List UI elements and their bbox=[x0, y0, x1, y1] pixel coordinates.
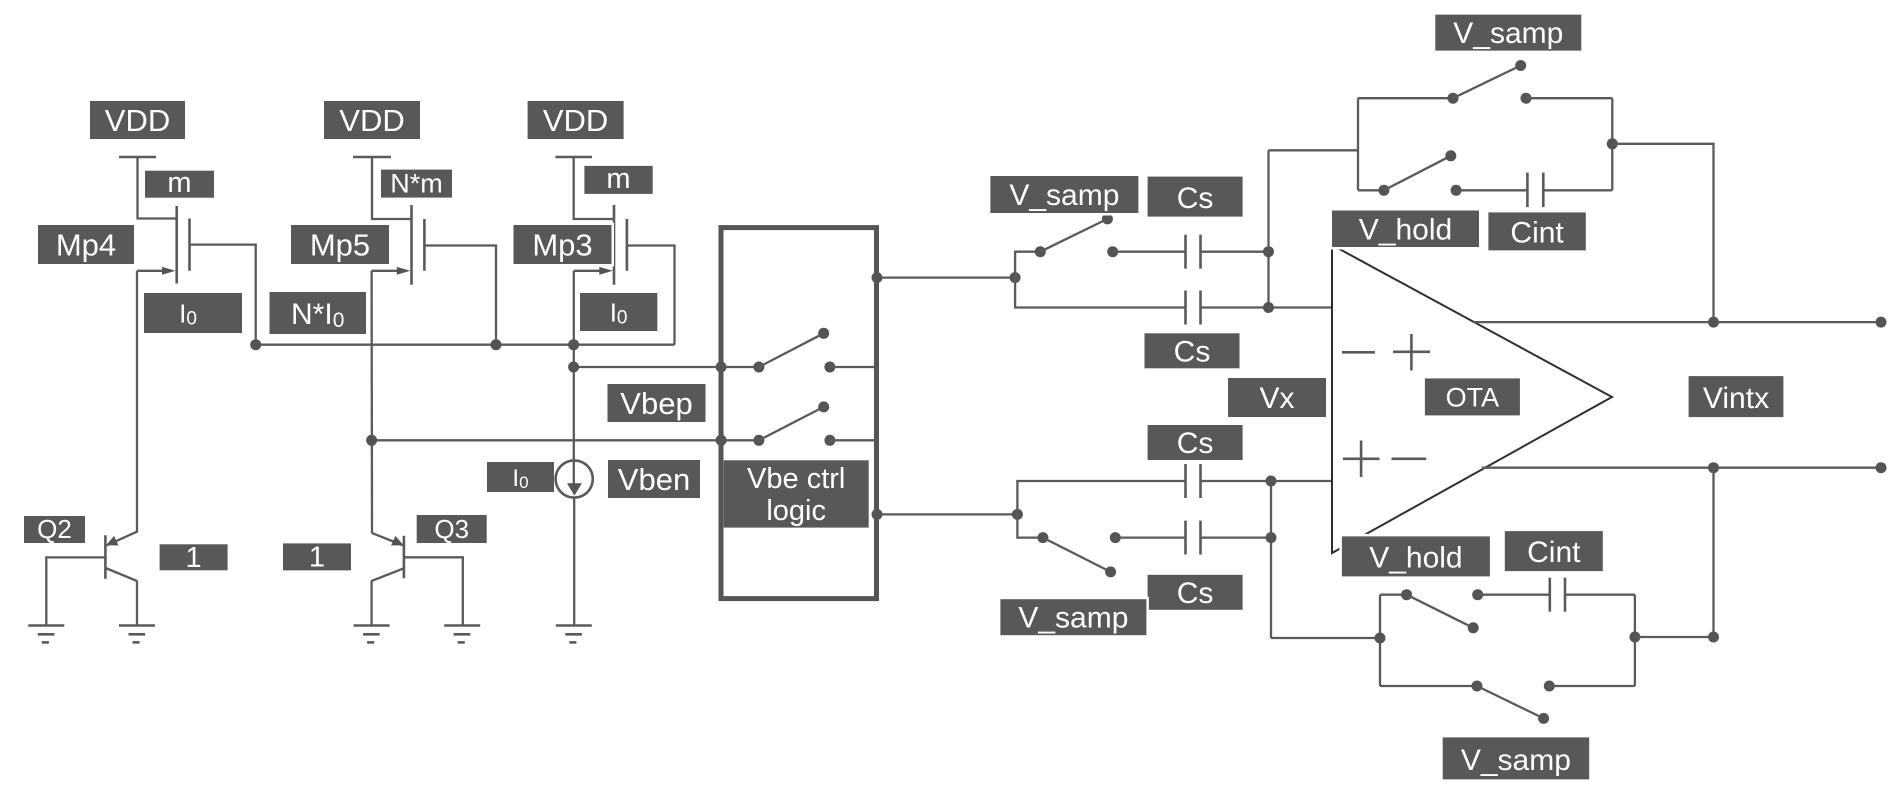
junction lower loop input tap bbox=[1375, 633, 1386, 644]
svg-text:Vbe ctrl: Vbe ctrl bbox=[747, 463, 845, 495]
label VDD (Mp4) bbox=[90, 101, 185, 139]
OTA lower input signs + - bbox=[1343, 441, 1426, 478]
upper feedback loop left vertical wire bbox=[1357, 98, 1359, 190]
wire Mp4 gate to mirror bus bbox=[191, 245, 256, 344]
label Cs (upper sampled) bbox=[1148, 177, 1243, 217]
switch Vben (inside logic box) bbox=[753, 401, 876, 445]
label Mp3 bbox=[514, 225, 612, 264]
svg-text:m: m bbox=[606, 163, 630, 195]
svg-text:Cint: Cint bbox=[1510, 216, 1564, 249]
terminal lower output bbox=[1876, 462, 1887, 473]
wire upper node to feedback loop bbox=[1269, 149, 1359, 151]
terminal upper output bbox=[1876, 317, 1887, 328]
capacitor Cint (lower feedback) bbox=[1550, 578, 1565, 612]
svg-text:Mp4: Mp4 bbox=[56, 228, 116, 263]
switch V_samp (upper input) bbox=[1035, 213, 1118, 257]
ground (current source) bbox=[556, 626, 592, 643]
wire Cint to lower loop right bbox=[1565, 594, 1635, 596]
junction mirror bus at Mp5 gate bbox=[491, 339, 502, 350]
switch V_samp (lower input) bbox=[1037, 532, 1120, 577]
label Cs (lower direct) bbox=[1148, 425, 1243, 460]
label I0 (Mp3 current) bbox=[580, 293, 657, 331]
wire node Vben bbox=[372, 439, 759, 441]
svg-text:Vintx: Vintx bbox=[1703, 382, 1769, 415]
svg-text:logic: logic bbox=[766, 495, 826, 527]
svg-text:Cs: Cs bbox=[1174, 335, 1211, 368]
svg-text:Cs: Cs bbox=[1177, 427, 1214, 460]
ground (Q3 emitter) bbox=[354, 626, 390, 643]
wire VDD to Mp4 source bbox=[138, 157, 176, 219]
capacitor Cs (lower direct branch) bbox=[1186, 464, 1201, 498]
junction lower input node at Cs branch bbox=[1266, 532, 1277, 543]
wire Cs to OTA input (upper direct) bbox=[1201, 306, 1269, 308]
svg-text:Q2: Q2 bbox=[37, 514, 72, 544]
svg-text:Cs: Cs bbox=[1177, 577, 1214, 610]
wire current source to ground bbox=[573, 498, 575, 625]
wire Cs to OTA lower input node bbox=[1201, 480, 1272, 482]
svg-text:V_hold: V_hold bbox=[1359, 213, 1452, 246]
wire upper loop bottom rail (left) bbox=[1358, 189, 1384, 191]
switch Vbep (inside logic box) bbox=[753, 328, 876, 373]
switch V_samp (lower feedback reset) bbox=[1472, 681, 1555, 724]
wire mirror gate bus bbox=[256, 344, 675, 346]
power VDD symbol (Mp4 rail) bbox=[119, 156, 156, 159]
label Vbep bbox=[608, 384, 706, 422]
label N*I0 (Mp5 current) bbox=[270, 292, 367, 334]
wire logic box lower output bbox=[877, 513, 1017, 515]
wire Mp5 gate to mirror bus bbox=[425, 246, 496, 344]
svg-text:Cint: Cint bbox=[1527, 536, 1581, 569]
wire Q3 emitter to ground bbox=[370, 580, 372, 625]
lower feedback loop left vertical wire bbox=[1379, 595, 1381, 686]
power VDD symbol (Mp3 rail) bbox=[555, 156, 592, 159]
junction upper loop to output feedback bbox=[1607, 138, 1618, 149]
capacitor Cs (lower sampled branch) bbox=[1186, 521, 1201, 555]
label V_samp (top) bbox=[1435, 15, 1581, 51]
wire lower node direct branch to Cs bbox=[1017, 481, 1185, 514]
junction lower input node at OTA wire bbox=[1266, 476, 1277, 487]
junction lower loop output tap bbox=[1629, 632, 1640, 643]
label I0 (current source) bbox=[487, 462, 554, 492]
wire logic box upper output bbox=[877, 276, 1015, 278]
wire OTA lower input node vertical bbox=[1270, 481, 1272, 638]
label N*m (Mp5 size) bbox=[381, 169, 452, 199]
label I0 (Mp4 current) bbox=[144, 293, 242, 333]
svg-text:V_samp: V_samp bbox=[1009, 179, 1119, 212]
label Cs (upper direct) bbox=[1145, 333, 1240, 368]
switch V_hold (lower feedback) bbox=[1401, 589, 1483, 633]
label Mp4 bbox=[38, 225, 134, 264]
svg-text:V_hold: V_hold bbox=[1369, 541, 1462, 574]
wire upper loop top rail (left) bbox=[1358, 97, 1453, 99]
label V_samp (upper input switch) bbox=[990, 176, 1138, 213]
wire V_hold to Cint (lower) bbox=[1478, 594, 1549, 596]
transistor Mp5 bbox=[412, 205, 425, 285]
transistor Mp3 bbox=[614, 205, 627, 285]
wire lower node to V_samp switch bbox=[1017, 514, 1043, 537]
label m (Mp3 size) bbox=[584, 163, 652, 195]
power VDD symbol (Mp5 rail) bbox=[353, 156, 391, 159]
wire lower loop bottom rail (left) bbox=[1380, 685, 1477, 687]
svg-text:Mp5: Mp5 bbox=[310, 228, 370, 263]
wire lower node to feedback loop bbox=[1271, 637, 1380, 639]
junction upper input node at OTA wire bbox=[1263, 302, 1274, 313]
ground (Q3 base) bbox=[444, 626, 480, 643]
label Q3 bbox=[417, 514, 487, 544]
svg-text:Vben: Vben bbox=[618, 462, 690, 497]
block Vbe ctrl logic box bbox=[721, 228, 877, 599]
svg-text:VDD: VDD bbox=[543, 103, 608, 138]
svg-text:VDD: VDD bbox=[105, 103, 170, 138]
svg-text:V_samp: V_samp bbox=[1018, 602, 1128, 635]
ground (Q2 emitter) bbox=[119, 626, 155, 643]
wire Mp5 drain down to Q3 bbox=[370, 271, 373, 534]
wire Mp3 drain down to current source bbox=[573, 271, 575, 484]
wire OTA lower input bbox=[1271, 480, 1332, 482]
svg-text:Mp3: Mp3 bbox=[532, 228, 592, 263]
label m (Mp4 size) bbox=[145, 167, 214, 199]
wire Cint to upper loop right bbox=[1543, 189, 1612, 191]
label Vbe ctrl logic bbox=[724, 460, 869, 527]
label V_hold (lower) bbox=[1342, 536, 1490, 576]
wire OTA upper input node vertical bbox=[1267, 150, 1269, 307]
wire OTA upper input bbox=[1269, 306, 1333, 308]
wire upper feedback to output bbox=[1612, 144, 1713, 322]
svg-text:Vbep: Vbep bbox=[620, 386, 692, 421]
label Q2 bbox=[24, 514, 85, 544]
capacitor Cs (upper direct branch) bbox=[1186, 291, 1201, 325]
capacitor Cint (upper feedback) bbox=[1527, 173, 1543, 208]
wire Mp3 gate to mirror bus bbox=[628, 246, 675, 345]
wire Mp3 drain with arrow bbox=[574, 267, 613, 275]
wire upper node to V_samp switch bbox=[1015, 252, 1040, 278]
label 1 (Q2 area ratio) bbox=[160, 542, 228, 574]
transistor Q3 bbox=[372, 533, 404, 581]
junction upper input node at Cs branch bbox=[1263, 246, 1274, 257]
junction logic box upper output bbox=[872, 272, 883, 283]
ground (Q2 base) bbox=[28, 626, 64, 643]
label Cs (lower sampled) bbox=[1148, 575, 1243, 610]
junction mirror bus at Mp3 drain bbox=[568, 339, 579, 350]
wire Mp4 drain down to Q2 bbox=[136, 271, 138, 533]
label VDD (Mp5) bbox=[324, 101, 420, 139]
label Mp5 bbox=[291, 225, 389, 264]
wire Cs to OTA inverting node (upper) bbox=[1201, 251, 1269, 253]
svg-text:Vx: Vx bbox=[1259, 382, 1294, 415]
wire VDD to Mp5 source bbox=[372, 157, 411, 219]
switch V_hold (upper feedback) bbox=[1378, 150, 1461, 196]
transistor Q2 bbox=[105, 532, 137, 581]
label VDD (Mp3) bbox=[528, 101, 624, 139]
svg-text:N*m: N*m bbox=[390, 169, 443, 199]
svg-text:m: m bbox=[167, 167, 191, 199]
wire VDD to Mp3 source bbox=[574, 157, 613, 219]
wire Q3 base to ground bbox=[404, 557, 463, 625]
label 1 (Q3 area ratio) bbox=[283, 542, 351, 574]
junction logic box lower output bbox=[872, 509, 883, 520]
svg-text:1: 1 bbox=[186, 542, 202, 574]
current source I0 bbox=[556, 460, 593, 497]
label Cint (upper) bbox=[1488, 212, 1585, 250]
svg-text:Q3: Q3 bbox=[434, 514, 469, 544]
junction Vbep at logic box border bbox=[716, 362, 727, 373]
label OTA bbox=[1425, 378, 1520, 415]
label V_samp (lower input switch) bbox=[1000, 599, 1146, 635]
wire Q2 emitter to ground bbox=[136, 581, 138, 626]
wire V_samp switch to Cs (upper sampled branch) bbox=[1113, 251, 1185, 253]
op-amp OTA triangle bbox=[1332, 245, 1612, 553]
wire lower feedback to output bbox=[1635, 468, 1714, 637]
junction Vben at logic box border bbox=[716, 435, 727, 446]
svg-text:V_samp: V_samp bbox=[1461, 744, 1571, 777]
label Vben bbox=[608, 460, 700, 498]
junction lower output feedback tap bbox=[1708, 462, 1719, 473]
label V_hold (upper) bbox=[1332, 211, 1479, 248]
wire OTA upper output bbox=[1474, 321, 1881, 323]
switch V_samp (upper feedback reset) bbox=[1448, 60, 1532, 104]
wire Mp5 drain with arrow bbox=[372, 267, 411, 275]
wire Mp4 drain with arrow bbox=[137, 267, 176, 275]
capacitor Cs (upper sampled branch) bbox=[1186, 235, 1201, 269]
junction lower feedback at output vertical bbox=[1708, 632, 1719, 643]
wire lower loop bottom rail (right) bbox=[1549, 685, 1635, 687]
svg-text:VDD: VDD bbox=[339, 103, 404, 138]
junction Vbep tap bbox=[568, 362, 579, 373]
lower feedback loop right vertical wire bbox=[1634, 595, 1636, 686]
svg-text:Cs: Cs bbox=[1177, 182, 1214, 215]
wire upper loop top rail (right) bbox=[1526, 97, 1612, 99]
wire Cs to lower input node bbox=[1201, 536, 1272, 538]
svg-text:V_samp: V_samp bbox=[1453, 17, 1563, 50]
wire V_samp switch to Cs (lower sampled branch) bbox=[1115, 536, 1185, 538]
label Vx bbox=[1228, 378, 1326, 417]
junction upper output feedback tap bbox=[1708, 317, 1719, 328]
transistor Mp4 bbox=[177, 206, 190, 284]
wire V_hold to Cint (upper) bbox=[1456, 189, 1526, 191]
label V_samp (bottom) bbox=[1443, 737, 1590, 779]
svg-text:1: 1 bbox=[309, 542, 325, 574]
wire node Vbep bbox=[574, 366, 759, 368]
upper feedback loop right vertical wire bbox=[1611, 98, 1613, 190]
junction upper sampling node bbox=[1010, 272, 1021, 283]
svg-text:OTA: OTA bbox=[1446, 382, 1500, 412]
wire upper node direct branch to Cs bbox=[1015, 278, 1185, 308]
wire OTA lower output bbox=[1482, 467, 1881, 469]
label Vintx bbox=[1689, 376, 1784, 417]
junction Vben at Q3 branch bbox=[366, 435, 377, 446]
OTA upper input signs - + bbox=[1342, 334, 1430, 371]
junction mirror bus at Mp4 gate bbox=[250, 339, 261, 350]
wire Q2 base to ground bbox=[46, 557, 105, 625]
label Cint (lower) bbox=[1505, 531, 1603, 571]
junction lower sampling node bbox=[1012, 509, 1023, 520]
wire lower loop top rail (left) bbox=[1380, 594, 1407, 596]
